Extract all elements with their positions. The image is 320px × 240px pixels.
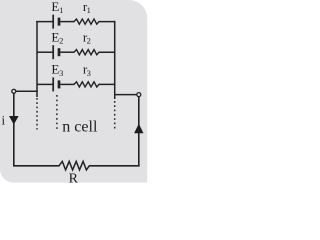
wire: left node horizontal [16,90,38,92]
resistor R [59,161,89,170]
background card [0,0,147,183]
wire: branch 2 mid stub [60,51,74,53]
svg-text:1: 1 [59,5,63,15]
wire: right bus vertical [114,21,116,99]
wire: bottom right segment [89,165,140,167]
wire: left vertical down [13,94,15,167]
dotted continuation right bus [114,101,116,131]
wire: right node horizontal [114,94,137,96]
svg-text:1: 1 [87,5,91,15]
wire: branch 3 left stub [37,83,53,85]
dotted continuation cell column [56,95,58,131]
wire: branch 3 right stub [99,83,116,85]
resistor r3 [74,82,99,87]
svg-text:3: 3 [59,68,63,78]
arrow: current upward right side [134,124,143,134]
cell E1 [53,15,59,29]
svg-text:i: i [2,112,6,127]
wire: branch 1 mid stub [60,21,74,23]
svg-text:2: 2 [87,36,91,46]
node: right terminal circle [137,93,141,97]
wire: branch 1 right stub [99,21,116,23]
svg-text:2: 2 [59,36,63,46]
wire: bottom left segment [13,165,60,167]
cell E3 [53,77,59,91]
svg-text:R: R [69,172,79,187]
wire: left bus vertical [36,21,38,97]
node: left terminal circle [12,89,16,93]
arrow: current i downward [9,116,19,125]
wire: right vertical down [138,97,140,167]
wire: branch 2 left stub [37,51,53,53]
resistor r2 [74,50,99,55]
wire: branch 2 right stub [99,51,116,53]
dotted continuation left bus [36,98,38,130]
wire: branch 3 mid stub [60,83,74,85]
wire: branch 1 left stub [36,21,52,23]
svg-text:n cell: n cell [62,119,98,136]
cell E2 [53,45,59,59]
svg-text:3: 3 [87,68,91,78]
resistor r1 [74,19,99,24]
